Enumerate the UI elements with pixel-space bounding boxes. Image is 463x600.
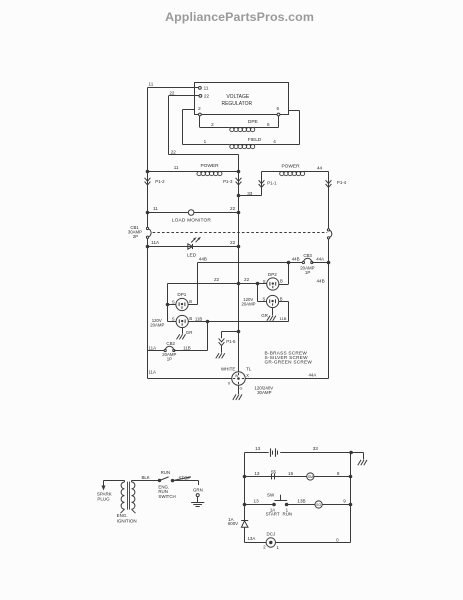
wire TL ground stub [238, 385, 240, 394]
svg-text:30AMP: 30AMP [257, 390, 271, 395]
svg-text:22: 22 [214, 277, 220, 282]
svg-text:11B: 11B [183, 345, 191, 350]
svg-text:22: 22 [244, 277, 250, 282]
svg-text:S: S [172, 317, 175, 322]
connector P1-1 [259, 180, 265, 187]
wire BLK to run switch [131, 481, 133, 483]
svg-text:2P: 2P [133, 234, 138, 239]
LED indicator [188, 244, 193, 249]
svg-text:13: 13 [255, 446, 261, 451]
wire DP2 top brass riser to 44B [279, 284, 289, 286]
transformer core [127, 482, 129, 510]
junction neutral tap [237, 330, 240, 333]
ground at ladder top right [358, 460, 361, 465]
ground GR of DP1 [182, 328, 184, 334]
wire 11A to TL Y terminal [148, 378, 232, 380]
svg-text:11B: 11B [280, 316, 287, 321]
svg-text:33: 33 [313, 446, 319, 451]
svg-text:P1-2: P1-2 [155, 179, 165, 184]
svg-text:FIELD: FIELD [248, 137, 262, 143]
svg-text:AppliancePartsPros.com: AppliancePartsPros.com [165, 10, 314, 24]
svg-text:B: B [280, 296, 283, 301]
junction 22 at center bus [237, 282, 240, 285]
svg-text:LED: LED [187, 253, 197, 259]
svg-text:44A: 44A [308, 373, 316, 378]
svg-text:P1-4: P1-4 [337, 180, 347, 185]
svg-text:SW: SW [267, 492, 275, 497]
wire left bus 11 segment to CB1 [147, 172, 149, 229]
junction 22 at DP2 silver [256, 282, 259, 285]
svg-text:22: 22 [230, 240, 236, 245]
svg-text:20AMP: 20AMP [241, 302, 255, 307]
circuit breaker CB3 20AMP 1P [289, 262, 304, 264]
wire 22 from regulator pin 22 [169, 95, 200, 97]
svg-text:RUN: RUN [283, 512, 293, 517]
svg-text:11A: 11A [148, 370, 156, 375]
svg-text:22: 22 [169, 91, 175, 96]
wire load monitor rung [148, 212, 239, 214]
wire left bus 11A segment below CB1 [147, 237, 149, 378]
svg-text:1P: 1P [305, 270, 310, 275]
ground GR of DP2 [272, 308, 274, 316]
wire 11B from DP1 brass [188, 321, 288, 323]
solenoid SO [315, 501, 322, 508]
svg-text:B: B [280, 279, 283, 284]
wire 11B from CB2 up to DP1 [174, 350, 208, 352]
svg-text:BLK: BLK [141, 475, 149, 480]
wire 11A rung to CB2 [148, 350, 166, 352]
svg-text:13: 13 [254, 471, 260, 476]
svg-text:44B: 44B [199, 257, 207, 262]
svg-text:GRN: GRN [193, 487, 203, 492]
earth ground at GRN [191, 502, 204, 504]
svg-text:600V: 600V [228, 521, 238, 526]
wire regulator left edge to FIELD coil [183, 109, 195, 111]
dashed trip link CB1 to CB4 [153, 232, 328, 234]
svg-text:SM: SM [308, 475, 313, 479]
svg-text:11A: 11A [149, 345, 157, 350]
wire DPE coil to regulator pin 6 [255, 127, 279, 129]
svg-text:TL: TL [246, 366, 252, 371]
svg-text:11A: 11A [151, 240, 160, 245]
wire to connector P1-5 [222, 331, 239, 333]
wire P1-5 ground stub [221, 346, 223, 353]
transformer ENG IGNITION primary winding [121, 482, 124, 509]
svg-text:P1-5: P1-5 [226, 339, 236, 344]
svg-text:44: 44 [317, 165, 323, 170]
junction node 11 power-left [146, 170, 149, 173]
wire ladder left bus upper [244, 453, 246, 521]
wire 22 horizontal to center bus [169, 154, 239, 156]
svg-text:GR-GREEN SCREW: GR-GREEN SCREW [265, 360, 313, 365]
svg-text:REGULATOR: REGULATOR [221, 101, 252, 107]
receptacle TL twist lock [232, 372, 246, 386]
circuit breaker CB4 right pole [329, 230, 332, 238]
wire 22 vertical segment [168, 96, 170, 155]
svg-text:S: S [263, 297, 266, 302]
svg-text:X: X [246, 373, 249, 378]
connector P1-5 [219, 338, 225, 345]
starter motor SM [307, 473, 314, 480]
svg-text:B: B [189, 316, 192, 321]
svg-text:1: 1 [204, 139, 207, 144]
svg-text:POWER: POWER [281, 163, 300, 169]
svg-text:S: S [172, 299, 175, 304]
svg-text:DP2: DP2 [268, 272, 277, 277]
svg-text:PLUG: PLUG [97, 497, 110, 502]
svg-text:LOAD MONITOR: LOAD MONITOR [172, 217, 212, 223]
connector P1-3 [236, 178, 242, 185]
svg-text:POWER: POWER [200, 163, 219, 169]
wire ladder top rung with battery [245, 452, 269, 454]
load monitor lamp [188, 210, 194, 216]
pin 11 of regulator [199, 87, 202, 90]
svg-text:DCJ: DCJ [267, 531, 276, 536]
svg-text:20AMP: 20AMP [150, 323, 164, 328]
wire 11 from regulator pin 11 to left bus [148, 87, 199, 89]
wire center bus 22 neutral [238, 172, 240, 372]
transformer bottom leads [121, 509, 125, 513]
svg-text:13A: 13A [247, 536, 255, 541]
wire 44A to TL X terminal [245, 378, 328, 380]
wire ladder right bus [350, 453, 352, 543]
svg-text:2: 2 [263, 544, 266, 549]
svg-text:VOLTAGE: VOLTAGE [226, 94, 250, 100]
svg-text:44A: 44A [316, 256, 324, 261]
wire ladder left bus lower [244, 527, 246, 542]
connector P1-4 [326, 180, 332, 187]
svg-text:SPARK: SPARK [97, 491, 112, 496]
wire spark plug lead [103, 481, 105, 489]
svg-text:CB3: CB3 [303, 253, 312, 258]
svg-text:GR: GR [186, 330, 193, 335]
svg-text:11: 11 [149, 81, 154, 86]
junction node 33 [237, 194, 240, 197]
junction node 22 power-right end [237, 170, 240, 173]
transformer ENG IGNITION secondary winding [132, 482, 135, 509]
svg-text:13: 13 [254, 498, 260, 503]
svg-text:STOP: STOP [178, 476, 190, 481]
svg-text:DP1: DP1 [177, 292, 186, 297]
wire left bus upper segment node 11 [147, 88, 149, 172]
svg-text:GR: GR [261, 313, 268, 318]
svg-text:11: 11 [204, 86, 209, 91]
svg-text:CB2: CB2 [166, 341, 175, 346]
wire FIELD coil to regulator right edge [255, 144, 300, 146]
svg-text:55: 55 [271, 469, 277, 474]
svg-text:SWITCH: SWITCH [158, 494, 175, 499]
svg-text:2: 2 [198, 106, 201, 111]
wire DP1 top brass stub [188, 304, 197, 306]
wire regulator pin 2 to DPE coil [199, 116, 201, 128]
svg-text:44B: 44B [317, 279, 325, 284]
svg-text:6: 6 [277, 106, 280, 111]
wire 33 riser to right power coil [239, 195, 262, 197]
svg-text:9: 9 [343, 498, 346, 503]
wire ladder ground branch [351, 452, 363, 454]
circuit breaker CB1 30AMP 2P [148, 229, 152, 238]
svg-text:SO: SO [316, 503, 321, 507]
svg-text:P1-3: P1-3 [223, 179, 233, 184]
voltage regulator U1 box [195, 83, 289, 115]
engine run switch [158, 479, 160, 481]
svg-text:4: 4 [273, 139, 276, 144]
svg-text:P1-1: P1-1 [267, 180, 277, 185]
svg-text:ENG.: ENG. [117, 513, 128, 518]
wire DP2 silver bus [257, 284, 259, 302]
svg-text:1: 1 [277, 545, 280, 550]
wire start switch rung [245, 504, 275, 506]
wire DP2 top silver stub [258, 283, 267, 285]
junction 11B at DP1 [206, 320, 209, 323]
wire 44 drop from right power coil [328, 172, 330, 230]
svg-text:8: 8 [337, 471, 340, 476]
svg-text:44B: 44B [292, 256, 300, 261]
wire 44B horizontal [198, 262, 289, 264]
svg-text:11: 11 [153, 206, 158, 211]
svg-text:Y: Y [228, 381, 231, 386]
junction DP1 silver [166, 303, 169, 306]
ground at P1-5 [216, 353, 219, 358]
svg-text:33: 33 [247, 191, 253, 196]
battery B1 [270, 448, 272, 456]
svg-text:RUN: RUN [161, 470, 171, 475]
wire DP1 silver bus [167, 284, 169, 322]
svg-text:11: 11 [174, 165, 179, 170]
svg-text:0: 0 [336, 538, 339, 543]
ground at TL [233, 394, 236, 400]
svg-text:START: START [266, 512, 280, 517]
wire LED rung [148, 246, 239, 248]
diode CR1 1A 600V [241, 520, 248, 522]
svg-text:1P: 1P [167, 357, 172, 362]
svg-text:11B: 11B [195, 316, 203, 321]
wire right bus 44 below CB4 [328, 238, 330, 379]
receptacle DP1 bottom outlet [176, 315, 188, 327]
wire DP2 bottom brass drop to 11B [279, 301, 289, 303]
wire 22 branch to receptacles [168, 283, 258, 285]
svg-text:IGNITION: IGNITION [117, 519, 137, 524]
svg-text:13B: 13B [297, 498, 305, 503]
wire GRN to ground [197, 497, 199, 503]
wire switch to GRN terminal [173, 480, 199, 482]
svg-text:22: 22 [230, 206, 236, 211]
wire DC jack rung [245, 542, 267, 544]
svg-text:DPE: DPE [248, 119, 258, 125]
svg-text:WHITE: WHITE [221, 366, 236, 371]
svg-text:16: 16 [288, 471, 294, 476]
wire 44B drop to DP1 brass [197, 263, 199, 305]
svg-text:B: B [189, 299, 192, 304]
svg-text:6: 6 [267, 122, 270, 127]
junction 44A at right bus [327, 261, 330, 264]
receptacle DP2 bottom outlet [267, 295, 279, 307]
connector P1-2 [145, 178, 151, 185]
svg-text:G: G [240, 387, 243, 391]
wire 22 drop to power coil node [238, 155, 240, 172]
svg-text:22: 22 [171, 149, 177, 154]
junction 44B at DP2 riser [287, 261, 290, 264]
wire starter motor rung [245, 476, 307, 478]
svg-text:2: 2 [211, 122, 214, 127]
wire DP1 top silver stub [168, 304, 176, 306]
pin 22 of regulator [199, 95, 202, 98]
svg-text:22: 22 [204, 94, 210, 99]
